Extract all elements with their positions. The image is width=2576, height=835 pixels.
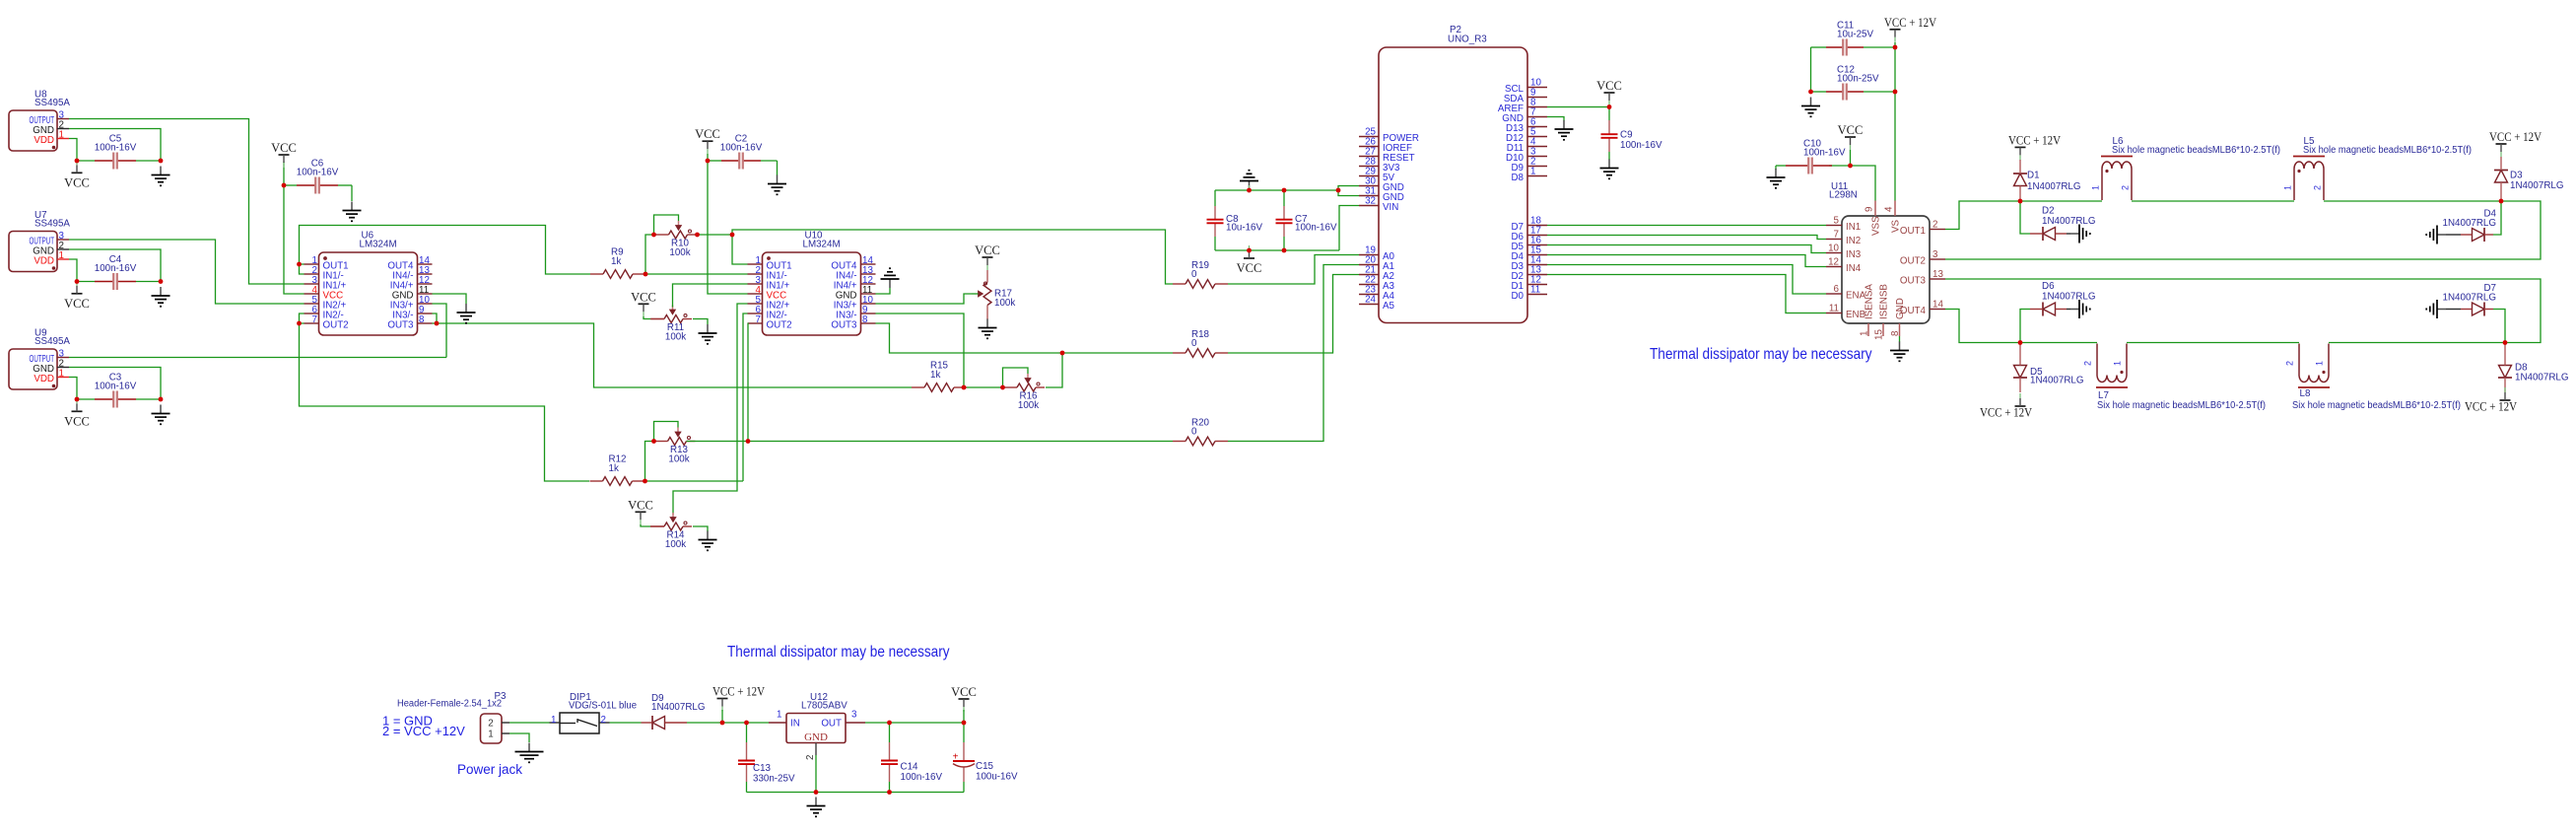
svg-text:VCC: VCC: [951, 685, 977, 699]
wire: [136, 160, 161, 162]
svg-text:VCC: VCC: [631, 290, 656, 304]
switch DIP1 VDG/S-01L blue: [550, 692, 638, 733]
svg-text:VCC + 12V: VCC + 12V: [2489, 130, 2542, 144]
svg-text:15: 15: [1874, 329, 1885, 340]
resistor R9: [590, 247, 645, 279]
wire: [645, 235, 654, 274]
capacitor C6: [297, 158, 339, 193]
ground: [1240, 171, 1258, 190]
wire: [876, 288, 891, 294]
svg-text:330n-25V: 330n-25V: [753, 774, 795, 785]
wire: [1228, 255, 1359, 285]
wire: [644, 316, 651, 319]
wire: [747, 792, 965, 794]
wire: [1338, 186, 1359, 191]
junction: [643, 479, 647, 484]
svg-text:VCC: VCC: [271, 141, 297, 155]
wire: [708, 160, 721, 162]
svg-text:1N4007RLG: 1N4007RLG: [651, 702, 705, 713]
capacitor C8: [1207, 206, 1263, 237]
svg-text:Six hole magnetic beadsMLB6*10: Six hole magnetic beadsMLB6*10-2.5T(f): [2112, 145, 2280, 156]
ground: [768, 175, 786, 195]
junction: [159, 159, 164, 164]
capacitor C3: [95, 372, 137, 407]
diode D3 1N4007RLG: [2494, 157, 2563, 201]
svg-text:IN2: IN2: [1846, 236, 1861, 246]
ground: [152, 405, 170, 425]
wire: [1547, 275, 1826, 313]
wire: [1215, 249, 1339, 251]
power flag VCC: [1838, 123, 1864, 150]
wire: [1894, 42, 1896, 201]
trimmer resistor R14: [650, 513, 692, 550]
power flag VCC: [64, 160, 90, 189]
wire: [1608, 152, 1610, 160]
svg-text:3: 3: [851, 710, 857, 721]
wire: [693, 526, 708, 531]
wire: [77, 281, 95, 283]
svg-text:Six hole magnetic beadsMLB6*10: Six hole magnetic beadsMLB6*10-2.5T(f): [2303, 145, 2472, 156]
wire: [1547, 225, 1826, 227]
wire: [1851, 166, 1876, 201]
svg-text:VCC: VCC: [1237, 261, 1262, 275]
wire: [2493, 201, 2501, 235]
wire: [1214, 190, 1216, 206]
ground: [1555, 120, 1574, 140]
capacitor C5: [95, 133, 137, 169]
svg-text:GND: GND: [1895, 298, 1906, 319]
wire: [865, 722, 964, 724]
wire: [889, 723, 891, 742]
svg-text:D2: D2: [2042, 206, 2055, 217]
wire: [1811, 46, 1827, 48]
svg-text:Thermal dissipator may be nece: Thermal dissipator may be necessary: [1650, 346, 1872, 363]
wire: [1945, 201, 2102, 230]
diode D7 1N4007RLG: [2443, 283, 2496, 316]
svg-text:VCC: VCC: [1596, 79, 1622, 93]
ground: [343, 202, 362, 222]
svg-text:D1: D1: [2027, 171, 2040, 181]
hall sensor U9 SS495A: [9, 328, 70, 390]
junction: [962, 721, 967, 726]
capacitor C12: [1826, 65, 1879, 101]
junction: [651, 233, 656, 238]
junction: [744, 721, 749, 726]
diode D1 1N4007RLG: [2013, 160, 2080, 201]
junction: [2018, 199, 2023, 204]
svg-text:OUT2: OUT2: [323, 320, 349, 331]
svg-text:1: 1: [1860, 331, 1870, 336]
svg-text:7: 7: [1834, 230, 1839, 241]
svg-text:1: 1: [2091, 185, 2101, 190]
wire: [1945, 279, 2541, 343]
svg-text:1: 1: [2283, 185, 2293, 190]
wire: [2067, 309, 2070, 311]
svg-text:C9: C9: [1620, 130, 1633, 141]
svg-text:8: 8: [862, 314, 868, 325]
wire: [2020, 310, 2030, 343]
svg-text:D6: D6: [2042, 281, 2055, 292]
svg-text:L298N: L298N: [1829, 190, 1858, 201]
svg-text:100n-25V: 100n-25V: [1837, 74, 1879, 85]
junction: [435, 321, 440, 326]
trimmer resistor R13: [654, 422, 696, 465]
capacitor C15 100u-16V: [953, 742, 1018, 783]
wire: [876, 294, 973, 304]
junction: [746, 439, 751, 444]
svg-text:13: 13: [1932, 269, 1943, 280]
junction: [814, 790, 819, 795]
inductor L6: [2091, 136, 2281, 200]
svg-text:OUT1: OUT1: [1900, 226, 1926, 237]
wire: [300, 323, 590, 481]
wire: [761, 160, 778, 162]
svg-text:9: 9: [1864, 207, 1875, 212]
svg-text:Power jack: Power jack: [457, 762, 522, 777]
svg-text:1: 1: [551, 715, 556, 726]
svg-text:2: 2: [2083, 361, 2093, 366]
wire: [1945, 201, 2541, 259]
svg-text:IN1: IN1: [1846, 222, 1861, 233]
wire: [748, 441, 1173, 443]
svg-text:5: 5: [1834, 216, 1840, 227]
wire: [433, 304, 447, 358]
wire: [876, 323, 1174, 353]
junction: [962, 385, 967, 390]
power flag VCC + 12V: [2489, 130, 2542, 157]
wire: [1608, 107, 1610, 121]
power flag VCC: [1237, 245, 1262, 275]
ground: [807, 798, 826, 817]
svg-text:1k: 1k: [611, 256, 621, 267]
svg-text:1: 1: [488, 730, 493, 740]
wire: [1338, 190, 1359, 196]
ground: [2070, 225, 2090, 244]
svg-text:100n-16V: 100n-16V: [720, 142, 763, 153]
junction: [75, 159, 80, 164]
wire: [645, 480, 744, 482]
power flag VCC + 12V: [712, 685, 765, 712]
wire: [1228, 275, 1359, 354]
wire: [698, 234, 733, 236]
svg-text:VCC: VCC: [1838, 123, 1864, 137]
svg-text:10u-16V: 10u-16V: [1226, 223, 1263, 234]
ground: [152, 287, 170, 307]
ground: [699, 531, 717, 551]
wire: [69, 129, 161, 162]
wire: [889, 782, 891, 793]
junction: [720, 721, 725, 726]
junction: [1808, 90, 1813, 95]
svg-text:2: 2: [1932, 220, 1937, 231]
wire: [1046, 353, 1062, 387]
svg-text:0: 0: [1191, 427, 1197, 438]
power flag VCC: [631, 290, 656, 316]
wire: [610, 722, 642, 724]
svg-text:24: 24: [1365, 295, 1376, 306]
wire: [687, 441, 749, 443]
wire: [645, 442, 654, 482]
power flag VCC: [64, 281, 90, 311]
hall sensor U7 SS495A: [9, 210, 70, 272]
svg-text:OUT2: OUT2: [1900, 256, 1926, 267]
junction: [1893, 45, 1898, 50]
svg-text:VDG/S-01L blue: VDG/S-01L blue: [569, 701, 638, 712]
resistor R12: [590, 454, 645, 486]
svg-text:OUT3: OUT3: [387, 320, 414, 331]
power flag VCC: [951, 685, 977, 712]
svg-text:ISENSA: ISENSA: [1864, 284, 1875, 319]
svg-text:SS495A: SS495A: [34, 336, 70, 347]
wire: [963, 782, 965, 793]
svg-text:C15: C15: [976, 761, 994, 772]
svg-text:1N4007RLG: 1N4007RLG: [2443, 293, 2496, 304]
svg-text:D8: D8: [1511, 173, 1524, 183]
wire: [1547, 255, 1826, 267]
svg-text:VDD: VDD: [34, 256, 54, 267]
junction: [1607, 104, 1612, 109]
svg-text:8: 8: [419, 314, 425, 325]
ground: [2426, 300, 2446, 318]
wire: [2446, 309, 2461, 311]
junction: [1000, 385, 1005, 390]
power flag VCC + 12V: [2008, 133, 2061, 160]
svg-text:ISENSB: ISENSB: [1879, 284, 1890, 319]
wire: [1864, 91, 1895, 93]
wire: [1776, 165, 1786, 167]
svg-text:1k: 1k: [930, 370, 940, 381]
wire: [650, 525, 664, 527]
wire: [1249, 185, 1251, 190]
svg-text:+: +: [953, 752, 959, 763]
trimmer resistor R16: [1003, 368, 1046, 411]
junction: [730, 233, 735, 238]
svg-text:VCC + 12V: VCC + 12V: [1884, 16, 1936, 30]
svg-text:100n-16V: 100n-16V: [901, 772, 943, 783]
wire: [693, 319, 708, 325]
svg-text:0: 0: [1191, 269, 1197, 280]
svg-text:6: 6: [1834, 284, 1840, 295]
svg-text:100n-16V: 100n-16V: [297, 167, 339, 177]
capacitor C9: [1601, 120, 1662, 152]
ground: [881, 268, 900, 288]
svg-text:IN4: IN4: [1846, 263, 1862, 274]
wire: [673, 284, 748, 308]
svg-text:1: 1: [777, 710, 781, 721]
power flag VCC: [975, 244, 1000, 270]
svg-text:10: 10: [1828, 244, 1839, 254]
svg-text:VCC: VCC: [628, 498, 653, 512]
svg-text:1: 1: [2113, 361, 2123, 366]
regulator U12 L7805ABV: [769, 692, 865, 760]
wire: [2127, 342, 2299, 344]
power flag VCC: [628, 498, 653, 524]
trimmer resistor R11: [650, 306, 692, 343]
svg-text:100n-16V: 100n-16V: [95, 142, 137, 153]
diode D5 1N4007RLG: [2013, 343, 2083, 393]
junction: [282, 183, 287, 188]
svg-text:OUT3: OUT3: [1900, 276, 1927, 287]
wire: [338, 184, 352, 186]
wire: [2067, 233, 2070, 235]
junction: [297, 321, 302, 326]
junction: [1336, 188, 1341, 193]
junction: [1060, 351, 1065, 356]
ground: [979, 319, 997, 339]
svg-text:OUT: OUT: [821, 719, 842, 730]
svg-text:C14: C14: [901, 761, 919, 772]
svg-text:VCC: VCC: [64, 414, 90, 428]
wire: [651, 318, 664, 320]
wire: [69, 119, 305, 285]
junction: [2503, 340, 2508, 345]
wire: [1810, 47, 1812, 92]
wire: [509, 722, 550, 724]
svg-text:LM324M: LM324M: [803, 240, 841, 250]
svg-text:L7805ABV: L7805ABV: [801, 701, 847, 712]
svg-text:D0: D0: [1511, 291, 1524, 302]
capacitor C7: [1276, 206, 1337, 237]
capacitor C11: [1826, 21, 1874, 56]
ground: [2070, 300, 2090, 318]
diode D2 1N4007RLG: [2030, 206, 2095, 242]
svg-text:7: 7: [312, 314, 317, 325]
trimmer resistor R17: [979, 270, 1016, 319]
svg-text:3: 3: [1932, 249, 1938, 260]
inductor L8: [2285, 344, 2462, 412]
capacitor C10: [1786, 139, 1846, 174]
svg-text:GND: GND: [804, 731, 828, 743]
wire: [746, 782, 748, 793]
capacitor C4: [95, 254, 137, 290]
junction: [2018, 340, 2023, 345]
hall sensor U8 SS495A: [9, 90, 70, 152]
motor driver U11 L298N: [1826, 181, 1945, 340]
svg-text:100n-16V: 100n-16V: [1620, 140, 1662, 151]
wire: [300, 313, 305, 323]
svg-text:14: 14: [1932, 300, 1943, 311]
diode D4 1N4007RLG: [2443, 209, 2497, 243]
capacitor C13: [738, 742, 795, 785]
wire: [1283, 237, 1285, 250]
svg-text:2: 2: [2313, 185, 2323, 190]
svg-text:11: 11: [1530, 285, 1540, 296]
power flag VCC + 12V: [2465, 387, 2517, 414]
svg-text:100k: 100k: [665, 539, 686, 550]
svg-text:100n-16V: 100n-16V: [1295, 223, 1337, 234]
power flag VCC + 12V: [1980, 393, 2032, 420]
svg-text:VCC + 12V: VCC + 12V: [1980, 406, 2032, 420]
ground: [457, 304, 476, 323]
svg-text:1: 1: [2315, 361, 2325, 366]
wire: [69, 368, 161, 400]
op-amp U10 LM324M: [748, 231, 876, 336]
wire: [2020, 201, 2030, 234]
svg-text:100u-16V: 100u-16V: [976, 772, 1018, 783]
wire: [654, 234, 656, 236]
diode D8 1N4007RLG: [2498, 343, 2568, 393]
svg-text:10u-25V: 10u-25V: [1837, 30, 1874, 40]
svg-text:100n-16V: 100n-16V: [1803, 148, 1846, 159]
svg-text:1: 1: [1530, 167, 1535, 177]
svg-text:1k: 1k: [609, 463, 619, 474]
wire: [641, 524, 650, 526]
svg-text:2: 2: [488, 719, 493, 730]
wire: [1899, 336, 1901, 342]
svg-text:1N4007RLG: 1N4007RLG: [2027, 181, 2080, 192]
mcu board P2 UNO_R3: [1359, 25, 1547, 323]
ground: [1767, 169, 1786, 188]
svg-text:1N4007RLG: 1N4007RLG: [2042, 292, 2095, 303]
ground: [1890, 342, 1909, 362]
inductor L7: [2083, 344, 2267, 412]
junction: [706, 159, 711, 164]
wire: [300, 226, 591, 275]
resistor R20: [1173, 418, 1228, 446]
wire: [1547, 265, 1826, 295]
junction: [887, 721, 892, 726]
wire: [732, 230, 1173, 284]
ground: [699, 324, 717, 344]
junction: [1893, 90, 1898, 95]
ground: [152, 167, 170, 186]
capacitor C14: [881, 742, 942, 783]
wire: [963, 710, 965, 723]
wire: [433, 313, 438, 323]
svg-text:100n-16V: 100n-16V: [95, 381, 137, 391]
diode D6 1N4007RLG: [2030, 281, 2095, 316]
wire: [777, 161, 779, 175]
trimmer resistor R10: [654, 215, 697, 258]
svg-text:OUT3: OUT3: [831, 320, 857, 331]
ground: [1600, 160, 1619, 179]
svg-text:8: 8: [1890, 330, 1901, 336]
svg-text:2 = VCC +12V: 2 = VCC +12V: [382, 724, 465, 738]
wire: [2132, 200, 2294, 202]
svg-text:100k: 100k: [665, 332, 686, 343]
diode D9 1N4007RLG: [642, 693, 706, 730]
junction: [75, 397, 80, 402]
svg-text:A5: A5: [1383, 301, 1395, 312]
svg-text:11: 11: [1829, 304, 1839, 314]
junction: [1247, 248, 1252, 253]
power flag VCC + 12V: [1884, 16, 1936, 42]
svg-text:12: 12: [1828, 257, 1839, 268]
wire: [743, 313, 748, 481]
svg-text:Six hole magnetic beadsMLB6*10: Six hole magnetic beadsMLB6*10-2.5T(f): [2292, 400, 2461, 411]
ground: [515, 743, 544, 763]
wire: [687, 722, 722, 724]
junction: [695, 233, 700, 238]
wire: [876, 313, 965, 387]
power flag VCC: [271, 141, 297, 168]
svg-text:VDD: VDD: [34, 374, 54, 384]
resistor R15: [912, 361, 967, 392]
wire: [433, 323, 913, 387]
wire: [1945, 310, 2097, 343]
wire: [815, 755, 817, 793]
wire: [69, 259, 77, 282]
power flag VCC: [695, 127, 720, 154]
wire: [284, 162, 305, 294]
svg-text:1N4007RLG: 1N4007RLG: [2510, 180, 2563, 191]
svg-text:VCC: VCC: [64, 175, 90, 189]
wire: [1775, 166, 1777, 170]
junction: [651, 439, 656, 444]
wire: [1547, 106, 1609, 108]
svg-text:100k: 100k: [669, 247, 690, 258]
connector P3 Header-Female-2.54_1x2: [397, 691, 509, 743]
